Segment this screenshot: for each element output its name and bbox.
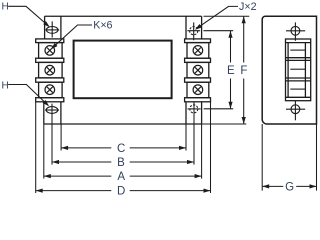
svg-text:G: G [285, 182, 294, 194]
svg-text:E: E [227, 65, 235, 77]
svg-text:A: A [117, 171, 125, 183]
svg-text:H: H [2, 2, 9, 13]
svg-text:H: H [2, 80, 9, 91]
svg-text:F: F [240, 65, 247, 77]
svg-text:C: C [117, 143, 125, 155]
svg-text:D: D [117, 186, 125, 195]
svg-text:J×2: J×2 [239, 1, 257, 13]
svg-text:B: B [117, 157, 125, 169]
svg-text:K×6: K×6 [93, 20, 112, 32]
